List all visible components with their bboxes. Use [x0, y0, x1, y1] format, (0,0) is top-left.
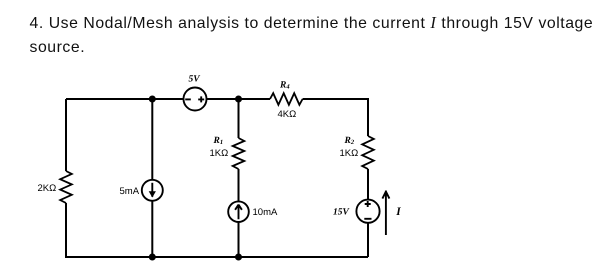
- svg-text:R1: R1: [213, 136, 224, 146]
- svg-text:2KΩ: 2KΩ: [38, 183, 57, 194]
- svg-text:5V: 5V: [189, 75, 201, 85]
- svg-text:R4: R4: [279, 81, 290, 91]
- svg-text:1KΩ: 1KΩ: [210, 148, 229, 159]
- svg-text:10mA: 10mA: [253, 207, 278, 218]
- svg-text:5mA: 5mA: [120, 186, 140, 197]
- svg-text:15V: 15V: [333, 208, 350, 218]
- svg-text:I: I: [395, 206, 401, 218]
- svg-text:4KΩ: 4KΩ: [278, 109, 297, 120]
- svg-text:1KΩ: 1KΩ: [340, 148, 359, 159]
- svg-text:R2: R2: [344, 136, 355, 146]
